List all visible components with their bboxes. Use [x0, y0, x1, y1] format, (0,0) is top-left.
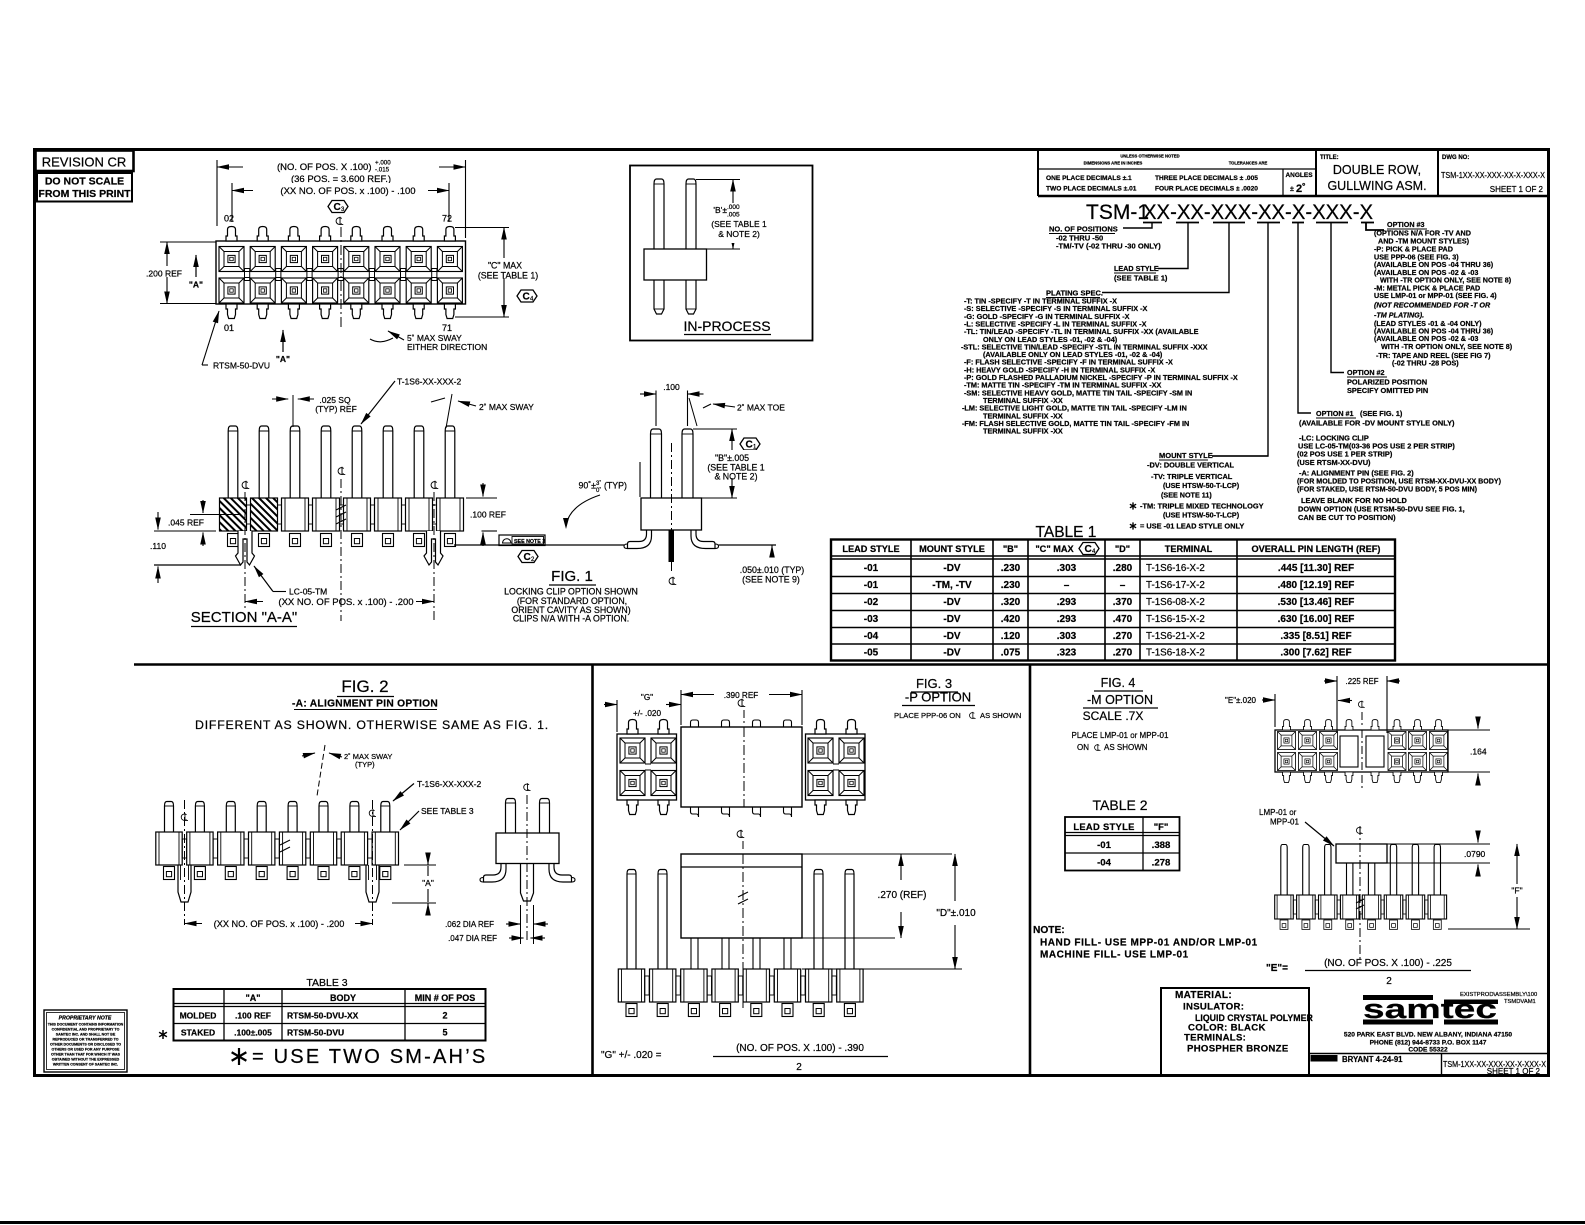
svg-text:.293: .293	[1057, 597, 1077, 608]
svg-text:-DV: -DV	[943, 647, 961, 658]
svg-text:PHONE (812) 944-8733 P.O. BO: PHONE (812) 944-8733 P.O. BOX 1147	[1370, 1040, 1487, 1047]
svg-text:AS SHOWN: AS SHOWN	[1104, 743, 1148, 752]
svg-text:+/- .020: +/- .020	[633, 709, 661, 718]
svg-text:2˚ MAX SWAY: 2˚ MAX SWAY	[479, 402, 534, 412]
svg-text:-03: -03	[864, 614, 879, 625]
svg-text:EXISTPROD\ASSEMBLY\100: EXISTPROD\ASSEMBLY\100	[1460, 992, 1537, 998]
svg-text:MACHINE FILL- USE LMP-01: MACHINE FILL- USE LMP-01	[1040, 950, 1189, 961]
svg-text:(NOT RECOMMENDED FOR -T OR: (NOT RECOMMENDED FOR -T OR	[1374, 301, 1491, 310]
svg-text:PLACE LMP-01 or MPP-01: PLACE LMP-01 or MPP-01	[1072, 731, 1169, 740]
svg-text:MADE BY:: MADE BY:	[1312, 1057, 1338, 1063]
svg-text:.293: .293	[1057, 614, 1077, 625]
svg-text:RTSM-50-DVU: RTSM-50-DVU	[213, 361, 270, 371]
svg-text:.0790: .0790	[1464, 849, 1486, 859]
svg-text:HAND FILL- USE MPP-01 AND/OR L: HAND FILL- USE MPP-01 AND/OR LMP-01	[1040, 938, 1258, 949]
svg-text:"F": "F"	[1154, 821, 1169, 832]
svg-text:-05: -05	[864, 647, 879, 658]
svg-text:FIG. 1: FIG. 1	[551, 568, 593, 585]
svg-text:-01: -01	[1097, 840, 1112, 851]
svg-text:.075: .075	[1001, 647, 1021, 658]
svg-text:TABLE 2: TABLE 2	[1093, 797, 1148, 813]
svg-text:DIFFERENT AS SHOWN. OTHERWIS: DIFFERENT AS SHOWN. OTHERWISE SAME AS FI…	[195, 718, 549, 732]
svg-text:.480 [12.19] REF: .480 [12.19] REF	[1278, 580, 1355, 591]
svg-text:(USE HTSW-50-T-LCP): (USE HTSW-50-T-LCP)	[1163, 481, 1240, 490]
svg-text:.303: .303	[1057, 631, 1077, 642]
svg-text:"A": "A"	[422, 878, 434, 888]
svg-text:LC-05-TM: LC-05-TM	[289, 587, 327, 597]
svg-text:.280: .280	[1113, 563, 1133, 574]
svg-text:.270 (REF): .270 (REF)	[878, 890, 927, 901]
svg-text:GULLWING ASM.: GULLWING ASM.	[1327, 179, 1426, 193]
svg-text:PHOSPHER BRONZE: PHOSPHER BRONZE	[1187, 1044, 1289, 1055]
svg-text:.050±.010 (TYP): .050±.010 (TYP)	[740, 565, 805, 575]
svg-text:(TYP): (TYP)	[604, 481, 627, 491]
svg-text:-04: -04	[864, 631, 879, 642]
svg-text:IN-PROCESS: IN-PROCESS	[683, 318, 770, 334]
svg-text:OVERALL PIN LENGTH (REF): OVERALL PIN LENGTH (REF)	[1252, 544, 1381, 554]
svg-text:REVISION CR: REVISION CR	[42, 155, 127, 170]
svg-text:(NO. OF POS. X .100) - .225: (NO. OF POS. X .100) - .225	[1324, 958, 1452, 969]
svg-text:PROPRIETARY NOTE: PROPRIETARY NOTE	[59, 1016, 112, 1022]
svg-text:CODE 55322: CODE 55322	[1408, 1047, 1448, 1054]
svg-text:-01: -01	[864, 580, 879, 591]
svg-text:"B": "B"	[1003, 544, 1018, 554]
svg-text:WRITTEN CONSENT OF SAMTEC INC.: WRITTEN CONSENT OF SAMTEC INC.	[53, 1063, 118, 1067]
svg-text:(-02 THRU -28 POS): (-02 THRU -28 POS)	[1392, 359, 1459, 368]
svg-text:& NOTE 2): & NOTE 2)	[718, 229, 760, 239]
svg-text:.100 REF: .100 REF	[235, 1011, 271, 1021]
svg-text:.323: .323	[1057, 647, 1077, 658]
svg-text:ANGLES: ANGLES	[1285, 172, 1313, 179]
svg-text:.047 DIA REF: .047 DIA REF	[448, 934, 497, 943]
svg-text:OPTION #2: OPTION #2	[1347, 368, 1385, 377]
svg-text:(USE HTSW-50-T-LCP): (USE HTSW-50-T-LCP)	[1163, 511, 1240, 520]
svg-text:"G" +/- .020 =: "G" +/- .020 =	[601, 1050, 662, 1061]
svg-text:(USE RTSM-XX-DVU): (USE RTSM-XX-DVU)	[1297, 458, 1371, 467]
svg-text:SEE TABLE 3: SEE TABLE 3	[421, 806, 474, 816]
svg-text:& NOTE 2): & NOTE 2)	[714, 472, 757, 482]
svg-text:-DV: -DV	[943, 631, 961, 642]
svg-text:.225 REF: .225 REF	[1346, 677, 1379, 686]
svg-text:WITH -TR OPTION ONLY, SEE NOTE: WITH -TR OPTION ONLY, SEE NOTE 8)	[1381, 342, 1513, 351]
svg-text:MPP-01: MPP-01	[1270, 818, 1299, 827]
svg-text:0˚: 0˚	[596, 487, 601, 494]
svg-text:"F": "F"	[1511, 886, 1522, 896]
svg-text:T-1S6-18-X-2: T-1S6-18-X-2	[1146, 647, 1205, 658]
svg-text:OTHERS OR USED FOR ANY PURPOSE: OTHERS OR USED FOR ANY PURPOSE	[52, 1048, 120, 1052]
svg-text:SCALE .7X: SCALE .7X	[1083, 709, 1144, 723]
svg-text:2˚ MAX TOE: 2˚ MAX TOE	[737, 403, 785, 413]
svg-text:TOLERANCES ARE: TOLERANCES ARE	[1229, 161, 1268, 166]
svg-text:-TM, -TV: -TM, -TV	[932, 580, 972, 591]
svg-text:(AVAILABLE FOR -DV MOUNT STYLE: (AVAILABLE FOR -DV MOUNT STYLE ONLY)	[1299, 419, 1455, 428]
svg-text:-04: -04	[1097, 858, 1112, 869]
svg-text:.164: .164	[1470, 747, 1487, 757]
svg-text:MOUNT STYLE: MOUNT STYLE	[1159, 451, 1213, 460]
svg-text:.420: .420	[1001, 614, 1021, 625]
svg-text:TERMINAL SUFFIX -XX: TERMINAL SUFFIX -XX	[983, 427, 1063, 436]
svg-text:–: –	[1064, 580, 1070, 591]
svg-text:71: 71	[442, 323, 452, 333]
svg-text:(FOR STAKED, USE RTSM-50-DVU B: (FOR STAKED, USE RTSM-50-DVU BODY, 5 POS…	[1297, 486, 1478, 494]
svg-text:TSM-1XX-XX-XXX-XX-X-XXX-X: TSM-1XX-XX-XXX-XX-X-XXX-X	[1441, 171, 1545, 180]
svg-text:.000: .000	[727, 204, 740, 211]
svg-text:ON: ON	[1077, 743, 1089, 752]
svg-text:(FOR MOLDED TO POSITION, USE R: (FOR MOLDED TO POSITION, USE RTSM-XX-DVU…	[1297, 478, 1502, 486]
svg-text:.303: .303	[1057, 563, 1077, 574]
svg-text:CONFIDENTIAL AND PROPRIETARY T: CONFIDENTIAL AND PROPRIETARY TO	[52, 1028, 120, 1032]
svg-text:USE LMP-01 or MPP-01 (SEE FIG.: USE LMP-01 or MPP-01 (SEE FIG. 4)	[1374, 291, 1497, 300]
svg-text:(XX NO. OF POS. x .100) - .200: (XX NO. OF POS. x .100) - .200	[278, 597, 413, 608]
svg-text:OPTION #1: OPTION #1	[1316, 409, 1354, 418]
svg-text:02: 02	[224, 214, 234, 224]
svg-text:C: C	[746, 440, 753, 451]
svg-text:–: –	[1120, 580, 1126, 591]
svg-text:FIG. 2: FIG. 2	[341, 677, 388, 696]
svg-text:CAN BE CUT TO POSITION): CAN BE CUT TO POSITION)	[1298, 513, 1396, 522]
svg-text:DOUBLE ROW,: DOUBLE ROW,	[1333, 163, 1421, 177]
svg-text:MIN # OF POS: MIN # OF POS	[415, 993, 476, 1003]
svg-text:(NO. OF POS. X .100): (NO. OF POS. X .100)	[277, 162, 372, 173]
svg-text:2: 2	[1386, 976, 1392, 987]
svg-text:(SEE TABLE 1): (SEE TABLE 1)	[1114, 274, 1168, 283]
svg-text:.270: .270	[1113, 631, 1133, 642]
svg-text:TWO PLACE DECIMALS ±.01: TWO PLACE DECIMALS ±.01	[1046, 186, 1137, 193]
svg-text:"B"±.005: "B"±.005	[715, 453, 749, 463]
svg-text:-.015: -.015	[375, 167, 390, 174]
svg-text:LEAD STYLE: LEAD STYLE	[1073, 821, 1134, 832]
svg-text:T-1S6-XX-XXX-2: T-1S6-XX-XXX-2	[417, 779, 482, 789]
svg-text:"G": "G"	[641, 693, 653, 702]
svg-text:LEAD STYLE: LEAD STYLE	[842, 544, 899, 554]
svg-text:"A": "A"	[276, 354, 290, 364]
svg-text:.100 REF: .100 REF	[470, 510, 506, 520]
svg-text:T-1S6-08-X-2: T-1S6-08-X-2	[1146, 597, 1205, 608]
svg-text:.390 REF: .390 REF	[724, 691, 759, 700]
svg-text:RTSM-50-DVU-XX: RTSM-50-DVU-XX	[287, 1011, 359, 1021]
svg-text:LMP-01 or: LMP-01 or	[1259, 808, 1297, 817]
svg-text:.388: .388	[1152, 840, 1171, 851]
svg-text:RTSM-50-DVU: RTSM-50-DVU	[287, 1028, 344, 1038]
svg-text:"A": "A"	[189, 280, 203, 290]
svg-text:EITHER DIRECTION: EITHER DIRECTION	[407, 342, 487, 352]
svg-text:2˚: 2˚	[1296, 183, 1306, 195]
svg-text:C: C	[524, 552, 531, 563]
svg-text:-DV: -DV	[943, 597, 961, 608]
svg-text:SHEET 1 OF 2: SHEET 1 OF 2	[1490, 185, 1544, 194]
svg-text:-A: ALIGNMENT PIN (SEE FIG. 2: -A: ALIGNMENT PIN (SEE FIG. 2)	[1299, 469, 1414, 478]
svg-text:SECTION "A-A": SECTION "A-A"	[191, 609, 298, 626]
svg-text:-A: ALIGNMENT PIN OPTION: -A: ALIGNMENT PIN OPTION	[292, 699, 438, 710]
svg-text:FIG. 4: FIG. 4	[1101, 676, 1136, 690]
svg-text:DO NOT SCALE: DO NOT SCALE	[45, 176, 124, 188]
svg-text:"E"=: "E"=	[1266, 963, 1288, 974]
svg-text:(SEE FIG. 1): (SEE FIG. 1)	[1360, 409, 1403, 418]
svg-text:.335 [8.51] REF: .335 [8.51] REF	[1280, 631, 1351, 642]
svg-text:(SEE NOTE 11): (SEE NOTE 11)	[1161, 491, 1212, 500]
svg-text:.230: .230	[1001, 580, 1021, 591]
svg-text:90˚±: 90˚±	[578, 481, 596, 491]
svg-text:DWG NO:: DWG NO:	[1442, 155, 1469, 161]
svg-text:SPECIFY OMITTED PIN: SPECIFY OMITTED PIN	[1347, 386, 1428, 395]
svg-text:-P OPTION: -P OPTION	[905, 690, 971, 705]
svg-text:MOLDED: MOLDED	[180, 1011, 217, 1021]
svg-text:BRYANT 4-24-91: BRYANT 4-24-91	[1342, 1055, 1403, 1064]
svg-text:PLACE PPP-06 ON: PLACE PPP-06 ON	[894, 711, 961, 720]
svg-text:TERMINALS:: TERMINALS:	[1184, 1033, 1246, 1044]
svg-text:520 PARK EAST BLVD. NEW ALBA: 520 PARK EAST BLVD. NEW ALBANY, INDIANA …	[1344, 1032, 1513, 1039]
svg-text:.100: .100	[663, 382, 680, 392]
svg-text:SHEET 1 OF 2: SHEET 1 OF 2	[1487, 1067, 1541, 1076]
svg-text:OBTAINED WITHOUT THE EXPRESSED: OBTAINED WITHOUT THE EXPRESSED	[52, 1058, 120, 1062]
svg-text:(SEE NOTE 9): (SEE NOTE 9)	[742, 575, 800, 585]
svg-text:-M OPTION: -M OPTION	[1087, 693, 1153, 707]
svg-text:.530 [13.46] REF: .530 [13.46] REF	[1278, 597, 1355, 608]
svg-text:(SEE TABLE 1: (SEE TABLE 1	[711, 219, 767, 229]
svg-text:REPRODUCED OR TRANSFERRED TO: REPRODUCED OR TRANSFERRED TO	[52, 1038, 118, 1042]
svg-text:3˚: 3˚	[596, 480, 601, 487]
svg-text:.005: .005	[727, 212, 740, 219]
svg-text:'B'±: 'B'±	[713, 205, 727, 215]
svg-text:"D"±.010: "D"±.010	[936, 908, 976, 919]
svg-text:(NO. OF POS. X .100) - .390: (NO. OF POS. X .100) - .390	[736, 1043, 864, 1054]
svg-text:= USE TWO SM-AH’S: = USE TWO SM-AH’S	[252, 1046, 487, 1068]
svg-text:-DV: -DV	[943, 614, 961, 625]
svg-text:.270: .270	[1113, 647, 1133, 658]
svg-text:UNLESS OTHERWISE NOTED: UNLESS OTHERWISE NOTED	[1120, 154, 1179, 159]
svg-text:.120: .120	[1001, 631, 1021, 642]
svg-text:MOUNT STYLE: MOUNT STYLE	[919, 544, 985, 554]
svg-text:.370: .370	[1113, 597, 1133, 608]
svg-text:AS SHOWN: AS SHOWN	[980, 711, 1021, 720]
svg-text:.470: .470	[1113, 614, 1133, 625]
svg-text:NOTE:: NOTE:	[1033, 925, 1065, 936]
svg-text:2: 2	[796, 1062, 802, 1073]
svg-text:.445 [11.30] REF: .445 [11.30] REF	[1278, 563, 1354, 574]
svg-text:T-1S6-21-X-2: T-1S6-21-X-2	[1146, 631, 1205, 642]
svg-text:TSM-1: TSM-1	[1086, 201, 1149, 224]
svg-text:"D": "D"	[1115, 544, 1130, 554]
svg-text:2: 2	[442, 1011, 447, 1021]
svg-text:"A": "A"	[245, 993, 260, 1003]
svg-text:= USE -01 LEAD STYLE ONLY: = USE -01 LEAD STYLE ONLY	[1140, 522, 1244, 531]
svg-text:SAMTEC INC. AND SHALL NOT BE: SAMTEC INC. AND SHALL NOT BE	[56, 1033, 116, 1037]
svg-text:+.000: +.000	[375, 160, 391, 167]
svg-text:TITLE:: TITLE:	[1320, 155, 1339, 161]
svg-text:TABLE 3: TABLE 3	[306, 977, 347, 989]
svg-text:SEE NOTE 3: SEE NOTE 3	[514, 539, 545, 545]
svg-text:ONE PLACE DECIMALS ±.1: ONE PLACE DECIMALS ±.1	[1046, 175, 1132, 182]
svg-text:.110: .110	[150, 541, 166, 551]
svg-text:OTHER THAN THAT FOR WHICH IT W: OTHER THAN THAT FOR WHICH IT WAS	[51, 1053, 121, 1057]
svg-text:STAKED: STAKED	[181, 1028, 215, 1038]
svg-text:.300 [7.62] REF: .300 [7.62] REF	[1280, 647, 1351, 658]
svg-text:±: ±	[1290, 186, 1294, 193]
svg-text:T-1S6-15-X-2: T-1S6-15-X-2	[1146, 614, 1205, 625]
svg-text:.100±.005: .100±.005	[234, 1028, 272, 1038]
svg-text:.062 DIA REF: .062 DIA REF	[445, 920, 494, 929]
svg-text:-TM: TRIPLE MIXED TECHNOLOGY: -TM: TRIPLE MIXED TECHNOLOGY	[1140, 502, 1264, 511]
svg-text:-01: -01	[864, 563, 879, 574]
svg-text:FROM THIS PRINT: FROM THIS PRINT	[38, 188, 131, 200]
svg-text:DIMENSIONS ARE IN INCHES: DIMENSIONS ARE IN INCHES	[1084, 161, 1143, 166]
svg-text:OTHER DOCUMENTS OR DISCLOSED T: OTHER DOCUMENTS OR DISCLOSED TO	[50, 1043, 121, 1047]
svg-text:BODY: BODY	[330, 993, 356, 1003]
svg-text:-DV: DOUBLE VERTICAL: -DV: DOUBLE VERTICAL	[1147, 461, 1235, 470]
svg-text:(TYP) REF: (TYP) REF	[315, 404, 357, 414]
svg-text:INSULATOR:: INSULATOR:	[1183, 1002, 1244, 1013]
svg-text:LOCKING CLIP OPTION SHOWN: LOCKING CLIP OPTION SHOWN	[504, 587, 638, 597]
svg-text:01: 01	[224, 323, 234, 333]
svg-text:.045 REF: .045 REF	[168, 518, 204, 528]
svg-text:-02: -02	[864, 597, 879, 608]
svg-text:T-1S6-16-X-2: T-1S6-16-X-2	[1146, 563, 1205, 574]
svg-text:"C" MAX: "C" MAX	[488, 261, 522, 271]
svg-text:-TM/-TV (-02 THRU -30 ONLY): -TM/-TV (-02 THRU -30 ONLY)	[1056, 242, 1161, 251]
svg-text:(SEE TABLE 1): (SEE TABLE 1)	[478, 271, 538, 281]
svg-text:CLIPS N/A WITH -A OPTION.: CLIPS N/A WITH -A OPTION.	[513, 614, 629, 624]
svg-text:T-1S6-XX-XXX-2: T-1S6-XX-XXX-2	[397, 377, 462, 387]
svg-text:THIS DOCUMENT CONTAINS INFORMA: THIS DOCUMENT CONTAINS INFORMATION	[48, 1023, 124, 1027]
svg-text:(TYP): (TYP)	[355, 760, 375, 769]
svg-text:.320: .320	[1001, 597, 1021, 608]
svg-text:TSMDVAM1: TSMDVAM1	[1504, 999, 1536, 1005]
svg-text:.278: .278	[1152, 858, 1171, 869]
svg-text:T-1S6-17-X-2: T-1S6-17-X-2	[1146, 580, 1205, 591]
svg-text:.230: .230	[1001, 563, 1021, 574]
svg-text:-TV: TRIPLE VERTICAL: -TV: TRIPLE VERTICAL	[1151, 472, 1233, 481]
svg-text:.200 REF: .200 REF	[146, 269, 182, 279]
svg-text:(XX NO. OF POS. x .100) - .200: (XX NO. OF POS. x .100) - .200	[214, 919, 345, 929]
svg-text:MATERIAL:: MATERIAL:	[1175, 990, 1232, 1001]
svg-text:LEAD STYLE: LEAD STYLE	[1114, 264, 1159, 273]
svg-text:TERMINAL: TERMINAL	[1165, 544, 1213, 554]
svg-text:"C" MAX: "C" MAX	[1035, 544, 1074, 554]
svg-text:C: C	[1085, 544, 1092, 555]
svg-text:XX-XX-XXX-XX-X-XXX-X: XX-XX-XXX-XX-X-XXX-X	[1143, 201, 1373, 224]
svg-text:LIQUID CRYSTAL POLYMER: LIQUID CRYSTAL POLYMER	[1195, 1013, 1313, 1023]
svg-text:"E"±.020: "E"±.020	[1225, 696, 1257, 705]
svg-text:-DV: -DV	[943, 563, 961, 574]
svg-text:C: C	[334, 202, 341, 213]
svg-text:5: 5	[442, 1028, 447, 1038]
svg-text:NO. OF POSITIONS: NO. OF POSITIONS	[1049, 225, 1118, 234]
svg-text:(XX NO. OF POS. x .100) - .100: (XX NO. OF POS. x .100) - .100	[280, 186, 415, 197]
svg-text:C: C	[523, 292, 530, 303]
svg-text:THREE PLACE DECIMALS ± .005: THREE PLACE DECIMALS ± .005	[1155, 175, 1258, 182]
svg-text:.630 [16.00] REF: .630 [16.00] REF	[1278, 614, 1355, 625]
svg-text:72: 72	[442, 214, 452, 224]
svg-text:FOUR PLACE DECIMALS ± .0020: FOUR PLACE DECIMALS ± .0020	[1155, 186, 1258, 193]
